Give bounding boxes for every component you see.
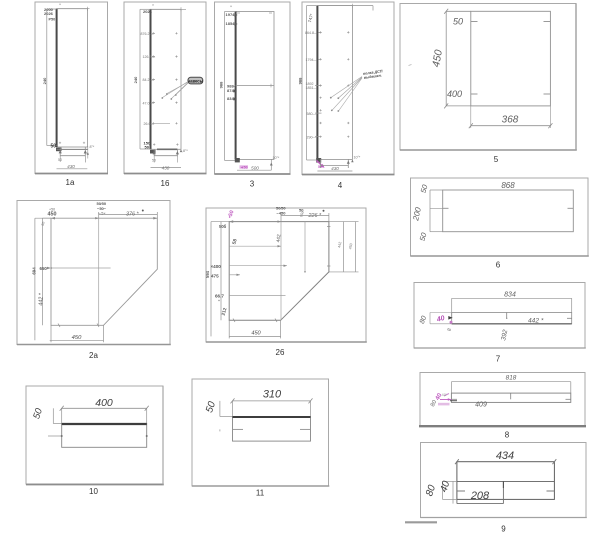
- svg-text:10: 10: [89, 487, 98, 496]
- panel 1a outline (tall side panel): [57, 9, 88, 147]
- svg-text:208: 208: [470, 490, 490, 502]
- mid tick panel 7: [506, 313, 508, 319]
- right edge ticks 2b: [327, 227, 330, 267]
- svg-text:864.8—: 864.8—: [305, 31, 318, 35]
- svg-text:310: 310: [263, 389, 282, 401]
- panel 1b outline (tall side panel with holes): [151, 9, 182, 149]
- left tick panel 8: [451, 398, 457, 400]
- svg-text:↔5×: ↔5×: [98, 212, 106, 216]
- magenta text 50 top 2b: [227, 210, 235, 219]
- magenta tick panel 7: [448, 316, 452, 320]
- svg-text:442 *: 442 *: [528, 318, 544, 325]
- hole marks left column panel 4: [320, 31, 322, 138]
- mid dot right panel 10: [146, 435, 148, 437]
- svg-text:500: 500: [251, 166, 259, 171]
- svg-text:10°*: 10°*: [354, 156, 361, 160]
- row text 1794 panel 4: [306, 58, 322, 62]
- sub box 208 panel 9: [457, 481, 504, 503]
- drawing sheet frame 5: [400, 4, 577, 151]
- stray shadow dash bottom-left of frame 9: [405, 521, 437, 523]
- bottom edge ticks 2a: [58, 324, 99, 328]
- panel 2a outline (corner bottom panel): [51, 218, 157, 325]
- svg-text:400: 400: [95, 397, 113, 409]
- svg-text:876.2—: 876.2—: [141, 32, 154, 36]
- drawing sheet frame 1a: [35, 2, 108, 174]
- svg-text:50: 50: [58, 158, 62, 162]
- svg-text:66.7: 66.7: [215, 294, 224, 299]
- drawing sheet frame 3: [215, 2, 291, 174]
- text 475 left 2b: [211, 274, 240, 279]
- svg-text:50б: 50б: [219, 224, 227, 229]
- svg-text:376 *: 376 *: [126, 211, 139, 217]
- svg-text:580—: 580—: [307, 112, 317, 116]
- drawing sheet frame 4: [302, 2, 395, 175]
- drawing sheet frame 2b: [206, 208, 367, 342]
- shelf leader dots panel 4: [330, 97, 339, 112]
- svg-text:400: 400: [447, 89, 462, 99]
- svg-text:430: 430: [67, 164, 75, 169]
- top texts panel 3: [226, 5, 239, 26]
- text 667 left 2b: [215, 294, 286, 301]
- leg arrows 1a: [58, 150, 87, 162]
- panel 5 outline (shelf panel): [471, 11, 551, 106]
- leg drop lines 1a: [60, 147, 85, 157]
- svg-text:874▶: 874▶: [227, 88, 238, 93]
- svg-text:×: ×: [230, 5, 232, 9]
- stacked texts 450 450 top 2b: [276, 206, 304, 216]
- svg-text:430: 430: [162, 165, 170, 170]
- mid tick panel 8: [510, 393, 512, 399]
- text 650 2a: [40, 266, 53, 271]
- bottom hole ticks 1a: [59, 142, 85, 144]
- top corner ticks panel 3: [237, 12, 272, 14]
- hole marks right column 1b: [175, 32, 177, 124]
- svg-text:8: 8: [505, 431, 510, 440]
- hole marks left column 1b: [152, 32, 154, 124]
- svg-text:50: 50: [152, 159, 156, 163]
- svg-text:290—: 290—: [307, 135, 317, 139]
- svg-text:450: 450: [72, 335, 82, 341]
- svg-text:×: ×: [152, 3, 154, 7]
- dimension line height 4: [307, 6, 318, 160]
- drawing sheet frame 10: [26, 386, 164, 485]
- drawing sheet frame 11: [192, 379, 329, 486]
- stacked texts 50 50 2a: [97, 201, 107, 216]
- stacked row texts 1892 1851 panel 4: [306, 82, 322, 90]
- text 400 left 2b: [211, 264, 288, 269]
- left overall dim lines 2b: [211, 222, 229, 337]
- svg-text:988: 988: [218, 81, 223, 88]
- top width dimension 310 panel 11: [231, 398, 313, 416]
- inner line 58 2b: [229, 245, 281, 247]
- drawing sheet frame 9: [421, 443, 587, 518]
- plinth block 1a: [56, 148, 88, 152]
- svg-text:988: 988: [298, 77, 303, 84]
- svg-text:47.0—: 47.0—: [143, 102, 154, 106]
- row text 290 panel 4: [307, 135, 322, 139]
- svg-text:10°*: 10°*: [273, 156, 280, 160]
- leg drop lines panel 4: [321, 159, 350, 168]
- left dim bracket panel 10: [53, 408, 61, 423]
- panel 7 outline (rail strip): [452, 313, 572, 324]
- stray tick left of frame 5: [409, 65, 412, 66]
- inner vertical line 2a: [98, 218, 100, 325]
- svg-text:50: 50: [51, 143, 57, 149]
- inner horizontal line 2a: [51, 267, 111, 269]
- drawing sheet frame 7: [414, 283, 586, 349]
- svg-text:7: 7: [496, 355, 501, 364]
- dimension line height 1b: [140, 9, 151, 149]
- svg-text:+50: +50: [49, 208, 55, 212]
- svg-text:594: 594: [205, 270, 210, 278]
- mid texts panel 3: [227, 84, 238, 101]
- top arrows 2a: [51, 217, 157, 220]
- shelf callout leaders panel 4: [331, 77, 362, 112]
- top dim extension 2a: [43, 212, 158, 218]
- svg-text:240: 240: [42, 77, 47, 84]
- bottom corner block panel 4: [316, 158, 321, 163]
- row text 580 panel 4: [307, 112, 322, 116]
- bottom dim 450 2b: [229, 320, 280, 338]
- panel 9 outline (drawer front 434): [457, 462, 555, 500]
- right tick panel 7: [567, 317, 572, 319]
- leg drop lines 1b: [154, 149, 177, 156]
- dimension line height 1a: [47, 9, 57, 146]
- svg-text:6: 6: [496, 261, 501, 270]
- panel 11 outline (drawer strip): [233, 417, 311, 442]
- mid arrow left panel 10: [48, 435, 63, 437]
- shelf hole row text 846.2: [143, 78, 156, 82]
- top dim line 2b: [281, 213, 329, 222]
- bottom width dimension 430 1a: [57, 164, 88, 169]
- bottom corner block panel 3: [235, 158, 240, 162]
- svg-text:450: 450: [48, 211, 57, 217]
- svg-text:409: 409: [475, 402, 487, 409]
- hole ticks panel 6: [443, 207, 574, 209]
- svg-text:650: 650: [40, 266, 48, 271]
- svg-text:−450: −450: [277, 210, 287, 215]
- svg-text:11: 11: [256, 489, 265, 498]
- bottom width dimension 430 1b: [151, 165, 182, 170]
- top edge arrows 2b: [229, 220, 281, 223]
- hole tick row bottom panel 5: [471, 93, 551, 95]
- svg-text:1a: 1a: [66, 178, 75, 187]
- svg-text:50: 50: [453, 17, 463, 27]
- hole marks right column panel 4: [347, 31, 349, 138]
- bottom width dimension 368 panel 5: [469, 106, 553, 128]
- svg-text:1974▶: 1974▶: [226, 12, 239, 17]
- dimension line height 3: [225, 12, 236, 161]
- stacked dim texts top-left 1a: [44, 7, 55, 22]
- left dim bracket panel 7: [430, 313, 452, 324]
- svg-text:450: 450: [251, 331, 261, 337]
- top width dimension 400 panel 10: [60, 406, 149, 424]
- svg-text:434: 434: [496, 450, 514, 462]
- left height dimension 450 panel 5: [444, 9, 471, 109]
- hinge callout box 1b: [188, 77, 204, 84]
- leg arrows 1b: [152, 151, 179, 163]
- svg-text:442 *: 442 *: [39, 292, 45, 305]
- left dim bracket panel 9: [443, 481, 457, 503]
- left dim lines 2a: [35, 218, 51, 340]
- shelf callout text panel 4: [363, 69, 383, 80]
- panel 8 outline (rail strip): [451, 393, 570, 402]
- panel 2b outline (corner top panel): [229, 222, 329, 321]
- inner vertical line b 2b: [304, 222, 306, 272]
- panel 3 outline (tall door panel): [236, 12, 274, 160]
- drawing sheet frame 1b: [124, 2, 207, 174]
- svg-text:1854▶: 1854▶: [226, 21, 239, 26]
- panel 10 outline (plinth strip): [62, 424, 147, 448]
- magenta arrow note panel 4: [317, 161, 325, 170]
- top width dimension 834 panel 7: [452, 298, 572, 318]
- magenta arrow panel 8: [440, 394, 451, 401]
- svg-text:2a: 2a: [89, 351, 98, 360]
- drawing sheet frame 2a: [17, 201, 171, 345]
- svg-text:навесы: навесы: [188, 78, 204, 83]
- edge angle note 8 deg 1a: [84, 145, 95, 162]
- svg-text:368: 368: [502, 115, 519, 126]
- right drop arrow panel 3: [270, 159, 273, 170]
- small texts above plinth 1b: [144, 141, 151, 150]
- svg-text:5: 5: [494, 155, 499, 164]
- right tick panel 8: [566, 398, 571, 400]
- hinge leader lines 1b: [163, 82, 189, 99]
- svg-text:442: 442: [276, 234, 283, 243]
- svg-text:◄50: ◄50: [240, 165, 248, 169]
- svg-text:4: 4: [338, 181, 343, 190]
- svg-text:−50−: −50−: [97, 206, 107, 211]
- svg-text:1851—: 1851—: [306, 86, 318, 90]
- svg-text:834▶: 834▶: [227, 96, 238, 101]
- mid tick panel 9: [502, 481, 504, 488]
- svg-text:834: 834: [504, 291, 516, 298]
- top edge dimension panel 4: [317, 4, 373, 11]
- hole tick row top panel 5: [471, 21, 551, 23]
- bottom edge ticks 2b: [233, 319, 277, 323]
- hinge leader dots 1b: [161, 93, 176, 100]
- magenta note panel 3: [240, 165, 249, 169]
- svg-text:50: 50: [145, 145, 150, 150]
- svg-text:Р50: Р50: [49, 18, 56, 22]
- shelf hole row text 470: [143, 102, 156, 106]
- shelf hole row text 1265: [143, 55, 156, 59]
- shelf hole row text 266: [144, 122, 171, 126]
- panel 6 outline (back strip 868x200): [443, 190, 574, 232]
- plinth block 1b: [150, 149, 177, 153]
- svg-text:26: 26: [276, 348, 285, 357]
- svg-text:84.2—: 84.2—: [143, 78, 154, 82]
- drawing sheet frame 8: [419, 373, 586, 427]
- left dim bracket panel 11: [220, 401, 233, 432]
- right dim lines 442 450 2b: [329, 222, 359, 272]
- shelf hole row text 876.2: [141, 32, 156, 36]
- top width dimension 818 panel 8: [451, 382, 570, 393]
- inner side ticks panel 11: [233, 428, 311, 430]
- panel 4 outline (tall side panel with holes): [317, 6, 352, 160]
- svg-text:16: 16: [161, 179, 170, 188]
- svg-text:1794—: 1794—: [306, 58, 318, 62]
- svg-text:×: ×: [59, 3, 61, 7]
- svg-text:240: 240: [133, 76, 138, 83]
- svg-text:26.6—: 26.6—: [144, 122, 155, 126]
- top corner arrows panel 9: [455, 459, 556, 464]
- svg-text:2026: 2026: [143, 9, 153, 14]
- drawing sheet frame 6: [411, 178, 589, 256]
- svg-text:3: 3: [250, 180, 255, 189]
- dot mid panel 7: [506, 318, 507, 319]
- svg-text:868: 868: [501, 181, 515, 190]
- edge angle note 10 deg panel 4: [351, 156, 361, 163]
- mid split line panel 9: [457, 480, 555, 482]
- svg-text:430: 430: [331, 166, 339, 171]
- svg-text:818: 818: [506, 375, 517, 382]
- inner line end dot 2b: [304, 271, 306, 273]
- left dim lines panel 6: [430, 190, 443, 232]
- svg-text:2026: 2026: [44, 11, 54, 16]
- mid split line panel 3: [236, 85, 274, 87]
- bottom width dim 500 panel 3: [237, 166, 271, 171]
- dark tick right of magenta panel 8: [450, 400, 457, 402]
- inner vertical line a 2b: [280, 222, 282, 321]
- svg-text:694: 694: [32, 267, 37, 275]
- inner side ticks panel 9: [457, 490, 555, 492]
- edge angle note 1b: [180, 149, 189, 153]
- bottom dim 450 2a: [50, 325, 104, 342]
- row text 864.8 panel 4: [305, 31, 322, 35]
- svg-text:,8°*: ,8°*: [182, 149, 188, 153]
- svg-text:9: 9: [501, 525, 506, 534]
- bottom hole ticks 1b: [153, 143, 178, 145]
- svg-text:475: 475: [211, 274, 219, 279]
- bottom width dim 430 panel 4: [317, 166, 352, 171]
- top edge dimension 1b: [151, 3, 187, 11]
- top edge dimension 1a: [57, 3, 90, 11]
- svg-text:×400: ×400: [211, 264, 222, 269]
- pink streak panel 8: [438, 403, 450, 406]
- svg-text:8°*: 8°*: [90, 145, 95, 149]
